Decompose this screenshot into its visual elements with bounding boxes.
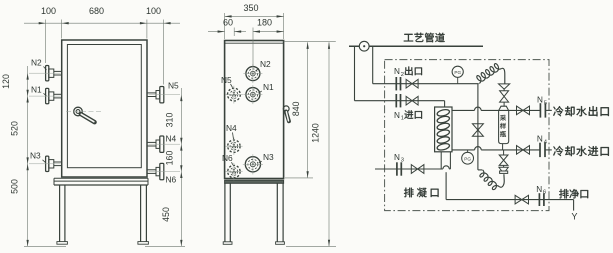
nozzle N3 front (left lower) xyxy=(46,156,49,171)
front left ext lines xyxy=(29,72,61,74)
svg-text:840: 840 xyxy=(291,101,301,116)
svg-text:350: 350 xyxy=(243,3,258,13)
front left dim arrows xyxy=(27,73,29,79)
sample bottle lower valve xyxy=(499,155,508,165)
svg-text:N: N xyxy=(537,135,543,144)
process pipe header xyxy=(349,45,483,47)
front right dimension line xyxy=(180,88,182,246)
N1 inlet pipe xyxy=(355,100,445,102)
svg-text:N: N xyxy=(394,67,400,76)
front view right foot pad xyxy=(138,242,149,245)
svg-text:450: 450 xyxy=(161,207,171,222)
side dim line 1240 xyxy=(328,42,330,246)
svg-text:1: 1 xyxy=(401,115,404,121)
pressure gauge PG2 xyxy=(467,150,469,153)
svg-text:6: 6 xyxy=(543,190,546,196)
front view right leg xyxy=(140,185,142,242)
sample tap valve xyxy=(472,124,483,137)
side view right foot pad xyxy=(276,242,285,245)
agitator handle front xyxy=(74,107,83,116)
pigtail coil upper xyxy=(477,64,502,84)
svg-text:N6: N6 xyxy=(166,175,177,185)
side view left foot pad xyxy=(223,242,232,245)
svg-text:680: 680 xyxy=(89,6,104,16)
valve N1 sch xyxy=(406,96,418,105)
front top dimension line xyxy=(24,22,180,24)
nozzle N6 front (right lower) xyxy=(160,163,164,179)
sample bottle xyxy=(499,106,509,143)
drip funnel lower xyxy=(499,167,508,171)
pipe drop to N1 inlet xyxy=(354,46,356,100)
side flange face N4 hidden xyxy=(228,140,240,152)
sample bottle stem to pipe xyxy=(503,150,505,155)
svg-text:3: 3 xyxy=(401,158,404,164)
flange N5 sch xyxy=(539,103,541,117)
cooling water inlet pipe N4 xyxy=(452,149,475,151)
label 冷却水出口 xyxy=(553,106,563,116)
pigtail coil lower xyxy=(480,170,500,190)
svg-text:N: N xyxy=(536,185,542,194)
label 冷却水进口 xyxy=(553,146,563,156)
side dim line 840 xyxy=(307,42,309,178)
front left dimension line xyxy=(27,66,29,246)
svg-text:N: N xyxy=(394,153,400,162)
side flange face N3 xyxy=(245,157,260,172)
N3 drain pipe xyxy=(375,168,443,170)
fitting circle on process header xyxy=(359,41,369,51)
drip funnel upper xyxy=(499,84,510,89)
label 采样瓶 (vertical) xyxy=(500,115,506,121)
flange N1 sch xyxy=(395,94,397,107)
svg-text:2: 2 xyxy=(401,72,404,78)
side ext line vessel top right xyxy=(284,41,336,43)
svg-text:100: 100 xyxy=(41,6,56,16)
side flange face N5 hidden xyxy=(228,88,241,101)
svg-text:N4: N4 xyxy=(166,133,177,143)
svg-text:N4: N4 xyxy=(226,123,237,133)
svg-text:N2: N2 xyxy=(260,59,271,69)
svg-text:N2: N2 xyxy=(31,57,42,67)
svg-text:500: 500 xyxy=(9,179,19,194)
flange N6 sch xyxy=(538,193,540,206)
valve N2 sch xyxy=(406,79,418,88)
svg-text:N3: N3 xyxy=(263,152,274,162)
svg-text:180: 180 xyxy=(257,17,272,27)
vessel bottom stubs xyxy=(440,152,442,169)
svg-text:1240: 1240 xyxy=(310,123,320,143)
label 工艺管道 xyxy=(404,34,413,42)
svg-text:100: 100 xyxy=(146,6,161,16)
svg-text:310: 310 xyxy=(164,113,174,128)
handle centerline front xyxy=(66,111,103,113)
front view tank outer shell xyxy=(62,40,147,177)
side view right leg xyxy=(276,183,278,242)
drain header down pipe xyxy=(445,172,447,199)
svg-text:N: N xyxy=(394,111,400,120)
side view vessel base band xyxy=(225,180,284,183)
svg-text:120: 120 xyxy=(1,74,11,89)
side dim line 350 xyxy=(225,15,284,17)
valve N3 sch xyxy=(411,165,424,174)
svg-text:N3: N3 xyxy=(30,151,41,161)
nozzle N4 front (right middle) xyxy=(160,136,164,152)
flange N4 sch xyxy=(539,143,541,157)
riser bottom elbow xyxy=(478,169,483,171)
label 排净口 xyxy=(559,189,568,198)
front right ext lines xyxy=(149,94,181,96)
svg-text:160: 160 xyxy=(164,151,174,166)
valve N5 sch xyxy=(517,106,530,115)
skid boundary box (dash-dot) xyxy=(385,60,549,211)
sample bottle upper valve xyxy=(500,91,509,102)
svg-text:Y: Y xyxy=(571,212,577,222)
heat exchanger vessel xyxy=(435,107,452,152)
front right dim arrows xyxy=(180,95,182,101)
front top dim arrows xyxy=(39,22,46,24)
svg-text:60: 60 xyxy=(223,17,233,27)
svg-text:N5: N5 xyxy=(168,80,179,90)
front view base frame band xyxy=(54,177,148,179)
svg-text:N6: N6 xyxy=(222,153,233,163)
side flange face N1 xyxy=(246,88,260,102)
blowdown pipe N6 xyxy=(446,199,573,201)
flange N3 sch xyxy=(396,162,398,175)
side ext line legs bottom right xyxy=(286,245,336,247)
nozzle N5 front (right upper) xyxy=(160,87,164,103)
sample tap riser xyxy=(477,84,479,170)
side view left leg xyxy=(224,183,226,242)
front top extension lines xyxy=(45,20,47,64)
front view tank inner shell xyxy=(67,45,141,168)
pipe drop to N2 outlet xyxy=(372,46,374,83)
svg-text:520: 520 xyxy=(9,121,19,136)
side view vessel top inner line xyxy=(225,42,284,44)
side dim line 60-180 xyxy=(208,31,225,33)
svg-text:N1: N1 xyxy=(263,82,274,92)
valve N6 sch xyxy=(515,195,528,204)
svg-text:PG: PG xyxy=(464,156,471,161)
front view left leg xyxy=(59,185,61,242)
svg-text:PG: PG xyxy=(454,70,461,75)
svg-text:5: 5 xyxy=(544,100,547,106)
heat exchanger coil xyxy=(436,108,450,117)
side ext line vessel bottom right xyxy=(285,177,313,179)
front view left foot pad xyxy=(57,242,68,245)
side flange face N2 xyxy=(246,67,260,81)
side flange face N6 hidden xyxy=(228,165,240,177)
sample bottle bottom stem xyxy=(502,144,504,150)
N2 outlet pipe xyxy=(373,83,479,85)
side view vessel shell xyxy=(225,41,284,179)
cooling water outlet pipe N5 xyxy=(452,109,475,111)
svg-text:N5: N5 xyxy=(221,75,232,85)
label 排凝口 xyxy=(404,188,414,198)
side view handle on right wall xyxy=(283,106,289,112)
svg-text:N: N xyxy=(537,96,543,105)
side top extension lines xyxy=(224,13,226,39)
nozzle N1 front (left middle) xyxy=(46,88,49,103)
pressure gauge PG1 xyxy=(457,77,459,83)
valve N4 sch xyxy=(517,146,530,155)
nozzle N2 front (left upper) xyxy=(46,66,49,81)
svg-text:N1: N1 xyxy=(31,84,42,94)
flange N2 sch xyxy=(395,77,397,90)
